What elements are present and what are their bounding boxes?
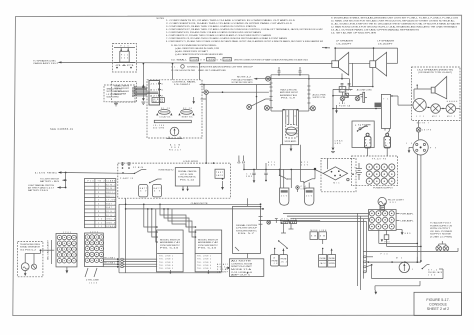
switch S4 lever down (278, 240, 288, 249)
svg-text:ASSEMBLY A10: ASSEMBLY A10 (280, 94, 297, 97)
annotation TO A11 with arrow (217, 263, 229, 274)
svg-text:9: 9 (98, 215, 99, 217)
svg-text:SUPPLY PS1: SUPPLY PS1 (313, 97, 326, 99)
svg-text:ALARM: ALARM (35, 171, 46, 174)
svg-text:TEL LINE 3: TEL LINE 3 (159, 262, 173, 264)
fuse F3 rounded (384, 133, 391, 148)
svg-text:PWR AMPL: PWR AMPL (401, 212, 414, 215)
svg-text:R20: R20 (282, 219, 288, 221)
svg-text:BAT +: BAT + (106, 202, 115, 205)
svg-text:AT THE P-AND 5 & 17: AT THE P-AND 5 & 17 (28, 186, 54, 189)
svg-text:FIG. 5-13: FIG. 5-13 (160, 248, 178, 250)
handset dashed box (104, 85, 135, 102)
svg-text:3: 3 (98, 192, 99, 194)
wires down from big connector (417, 154, 421, 261)
ground below handset box (114, 102, 118, 106)
svg-text:DENOTES CONNECTOR POINTS OF SA: DENOTES CONNECTOR POINTS OF SAME VOLTAGE… (234, 59, 308, 62)
remote connector MIC2 X circle (440, 104, 459, 118)
left edge terminal marks box A1 (155, 226, 158, 243)
svg-text:DS1: DS1 (390, 202, 396, 204)
switch S3 lever (149, 179, 162, 183)
small X connector above big connector (416, 121, 431, 140)
wires below amplifier (280, 145, 304, 188)
small connector box on AC feed (345, 93, 348, 97)
terminal bar in control panel (154, 120, 191, 122)
wire drop with junction near x204 (200, 84, 271, 90)
svg-text:8. COMPONENTS T1, R14 AND THRU: 8. COMPONENTS T1, R14 AND THRU C21 ARE L… (166, 40, 324, 43)
svg-text:LF SPEAKER: LF SPEAKER (114, 90, 130, 93)
svg-text:TERM: TERM (191, 59, 198, 61)
svg-text:NOTES: NOTES (157, 18, 165, 20)
svg-text:ASSEMBLY A1: ASSEMBLY A1 (160, 241, 180, 244)
connector J1/P1 terminals on control panel left (149, 81, 163, 106)
svg-text:MODEL SWITCH: MODEL SWITCH (160, 240, 181, 242)
svg-text:GND-B: GND-B (106, 222, 116, 224)
svg-text:HORN RELAY K2: HORN RELAY K2 (159, 169, 174, 172)
wire big box top to clang box (247, 198, 249, 206)
svg-text:TEL LINE 4: TEL LINE 4 (159, 265, 173, 267)
svg-text:AMPLIFIER GROUP: AMPLIFIER GROUP (280, 91, 299, 94)
resistor R20 hatched (281, 219, 288, 224)
svg-text:ALM-2: ALM-2 (106, 187, 115, 190)
svg-text:PHONE: PHONE (329, 258, 336, 260)
svg-text:LS-3 SPEAKER (REMOTE): LS-3 SPEAKER (REMOTE) (417, 69, 454, 72)
svg-text:GND-A: GND-A (106, 218, 116, 221)
telephone generator dashed box (18, 241, 43, 276)
bus extension to AC area (309, 78, 373, 87)
svg-text:600 OHM: 600 OHM (114, 93, 127, 95)
filter FL1 dashed box (113, 44, 137, 73)
loud spkr label with arrows (183, 156, 245, 164)
svg-text:1. COMPONENTS R1, R2 AND THRU: 1. COMPONENTS R1, R2 AND THRU C14 ARE LO… (166, 19, 296, 22)
svg-text:MIC CABLE ASSY: MIC CABLE ASSY (47, 239, 50, 260)
svg-text:TELEPHONE RING: TELEPHONE RING (20, 244, 41, 246)
wires grid B to model switch (103, 257, 120, 267)
microphone diamond (314, 159, 356, 192)
capacitor ticks on AC feed (341, 84, 351, 90)
ground right of amplifier box (335, 105, 338, 114)
amplifier tube sockets grid 4x3 (369, 211, 394, 229)
svg-text:S2 ALM: S2 ALM (133, 166, 144, 169)
svg-text:LOCAL VOL: LOCAL VOL (160, 116, 171, 119)
note text near bus (232, 77, 254, 84)
svg-text:SW: SW (311, 236, 316, 238)
capacitor tick C2 on bus (299, 67, 302, 76)
speaker amplifier inner box (283, 109, 299, 145)
svg-text:PHONE: PHONE (320, 258, 327, 260)
svg-text:9. BLOCK DIMENSION SPECIFIED:: 9. BLOCK DIMENSION SPECIFIED: (171, 45, 218, 47)
svg-text:FIG. 5-9: FIG. 5-9 (281, 97, 295, 99)
switch S1 lever (357, 125, 368, 132)
svg-text:3. COMPONENTS R5, R6 AND THRU: 3. COMPONENTS R5, R6 AND THRU C16 ARE LO… (166, 25, 256, 28)
cylinder tube V2 (305, 188, 314, 205)
svg-text:TEL LINE 5: TEL LINE 5 (197, 268, 211, 270)
wire FL1 to control panel (long horizontal) (113, 63, 333, 64)
amplifier AM grid box (369, 210, 397, 231)
mode switch small boxes (310, 230, 327, 240)
svg-text:BELL+: BELL+ (106, 192, 115, 194)
svg-text:LF SPEAKER: LF SPEAKER (377, 40, 395, 43)
svg-text:ASSEMBLY A2: ASSEMBLY A2 (198, 241, 218, 244)
svg-text:POWER SUPPLY ON: POWER SUPPLY ON (430, 225, 453, 227)
power supply tube sockets grid 4x3 (366, 164, 395, 184)
svg-text:LS-166/FT: LS-166/FT (337, 43, 354, 45)
svg-text:(OR REMOTE TYPE LS-460?): (OR REMOTE TYPE LS-460?) (418, 72, 453, 74)
switch lever S7 (303, 169, 315, 188)
svg-text:MIC: MIC (333, 182, 340, 184)
svg-text:13. ALL OUTSIDE PANEL LIST AND: 13. ALL OUTSIDE PANEL LIST AND UPPER MAN… (331, 29, 420, 32)
wires handset box to control panel (135, 85, 159, 96)
capacitor tick C1 on bus (278, 67, 281, 76)
tel line label below grid B (85, 268, 100, 284)
svg-text:CLANG NOTE: CLANG NOTE (191, 202, 209, 205)
LF speaker box inside control panel (152, 98, 164, 103)
fuse F1 dark strip (375, 103, 382, 108)
svg-text:G1 FIG 5-2: G1 FIG 5-2 (20, 249, 36, 251)
fuse F1 label (339, 103, 351, 108)
capacitor on bus (275, 218, 278, 223)
connector J1/P1 terminals on control panel left (149, 81, 163, 106)
svg-text:LF SPEAKER: LF SPEAKER (336, 40, 354, 43)
grounds below cancel box (182, 186, 189, 191)
svg-text:SW: SW (320, 236, 325, 238)
svg-text:600 OHM: 600 OHM (153, 128, 165, 130)
note text right column bottom (430, 222, 453, 239)
AC line cord label (345, 89, 373, 93)
svg-text:PP-327 PS: PP-327 PS (372, 158, 387, 160)
bus wires clang note (119, 198, 264, 273)
remote speaker horn (414, 77, 458, 102)
svg-text:7. COMPONENTS C3, R12 AND THRU: 7. COMPONENTS C3, R12 AND THRU C20 ARE L… (166, 37, 288, 40)
svg-text:R21: R21 (290, 219, 296, 221)
svg-text:SYNCHRONETIC: SYNCHRONETIC (236, 230, 258, 232)
svg-text:TRACK & RECORD: TRACK & RECORD (280, 89, 298, 92)
bus wire y78.7 with left arrowhead (254, 78, 309, 80)
wires handset box to control panel (136, 84, 158, 95)
svg-text:SYNCHRONETIC: SYNCHRONETIC (160, 245, 181, 247)
svg-text:(b) ALL RESISTORS 1/2 WATT: (b) ALL RESISTORS 1/2 WATT (175, 50, 209, 53)
svg-text:TEL LINE 2: TEL LINE 2 (159, 259, 173, 261)
vertical cable label left of grid A (47, 239, 52, 264)
svg-text:BATT: BATT (140, 187, 148, 190)
connector X circle J3 (340, 92, 345, 104)
svg-text:LISTEN: LISTEN (329, 263, 336, 265)
svg-text:SUPPLY NOISE: SUPPLY NOISE (430, 234, 452, 236)
svg-text:BATTERY P.S.E.S: BATTERY P.S.E.S (28, 189, 49, 192)
svg-text:FIG. 5-7: FIG. 5-7 (238, 233, 254, 235)
svg-text:(7.2MV 2.1 PWR): (7.2MV 2.1 PWR) (430, 237, 453, 239)
inline note text box (229, 259, 263, 277)
power unit box with switch and fuse (352, 121, 374, 148)
svg-text:FIG. 5-13: FIG. 5-13 (198, 248, 216, 250)
transformer T1 tall rect (381, 94, 394, 128)
phone jack box A (271, 248, 279, 266)
svg-text:5. COMPONENTS R9, R10 AND THRU: 5. COMPONENTS R9, R10 AND THRU C18 ARE L… (166, 31, 262, 34)
amplifier group label (280, 89, 299, 100)
svg-text:TERM: TERM (208, 59, 215, 61)
svg-text:10. PANEL LINE SECTION FOR TWO: 10. PANEL LINE SECTION FOR TWO-AND-OVER … (331, 20, 456, 23)
connector X circle right of control panel (204, 90, 208, 94)
svg-text:1: 1 (98, 184, 99, 186)
svg-text:2. COMPONENTS R3, R4 AND THRU: 2. COMPONENTS R3, R4 AND THRU C15 ARE LO… (166, 22, 293, 25)
svg-text:POWER SUPPLY: POWER SUPPLY (373, 188, 394, 190)
switch levers S5 S6 (279, 169, 292, 188)
svg-text:SIGNAL DISTRIB: SIGNAL DISTRIB (236, 224, 258, 227)
svg-text:5: 5 (98, 200, 99, 202)
svg-text:FIG 4 & 7: FIG 4 & 7 (169, 150, 181, 152)
switch lever and phone jack label bottom right (422, 265, 443, 277)
amplifier group large box (270, 75, 311, 111)
notes text block left column (157, 18, 324, 72)
notes text block right column (331, 17, 460, 35)
wire from connector to amplifier bus (202, 91, 269, 93)
svg-text:SYNCHRONETIC: SYNCHRONETIC (178, 177, 197, 179)
record play jacks pair (319, 239, 336, 267)
svg-text:NOT AT RECORD SETS: NOT AT RECORD SETS (232, 81, 254, 84)
svg-text:TEL LINE 1: TEL LINE 1 (197, 255, 211, 257)
svg-text:AC LINE CORD: AC LINE CORD (357, 89, 373, 92)
svg-text:TEL LINE 1: TEL LINE 1 (104, 257, 115, 259)
svg-text:FIG. 5-14: FIG. 5-14 (180, 179, 194, 181)
svg-text:SHEET 2 of 2: SHEET 2 of 2 (427, 307, 449, 311)
bracket label below control panel (169, 144, 181, 152)
nested loop wires to switch boxes (143, 204, 195, 243)
svg-text:7: 7 (98, 207, 99, 209)
pilot light DS1 (378, 197, 405, 210)
wire from annotation to filter FL1 (62, 61, 113, 63)
battery BT1 (139, 185, 148, 197)
bottom right long wire P10 (363, 248, 458, 256)
ground right in clang area (221, 178, 224, 190)
svg-text:SIG 1: SIG 1 (106, 211, 115, 213)
svg-text:FOR DIA & FIG MARK: FOR DIA & FIG MARK (232, 78, 254, 81)
svg-text:TO ADJUST VOLT: TO ADJUST VOLT (430, 222, 452, 225)
svg-text:SPARE: SPARE (106, 225, 116, 228)
svg-text:TEL LINE 2: TEL LINE 2 (197, 259, 211, 261)
label LS-166 600 ohm (153, 125, 165, 130)
wires inside generator box (25, 249, 54, 264)
svg-text:10. SMALL: 10. SMALL (171, 59, 188, 62)
svg-text:P10: P10 (88, 181, 94, 183)
svg-text:CONSOLE: CONSOLE (429, 303, 448, 307)
switch lever on AC feed (358, 94, 361, 96)
svg-text:S CO-AX: S CO-AX (217, 268, 229, 271)
svg-text:14. SET A LINE OF MULTIPLIER: 14. SET A LINE OF MULTIPLIER (331, 31, 377, 34)
control panel dashed box (147, 80, 202, 138)
svg-text:LIGHT MANUAL SWITCH: LIGHT MANUAL SWITCH (28, 184, 55, 187)
svg-text:WITH OUTPUT: WITH OUTPUT (430, 228, 451, 230)
svg-text:LS-204/FT: LS-204/FT (378, 43, 395, 45)
chassis ground bottom left (331, 140, 343, 153)
jack field grid B (85, 231, 104, 266)
switch S2 in clang box (133, 166, 146, 174)
junction dot on top edge (213, 162, 215, 164)
wire vertical into control panel top x199.6 (199, 63, 201, 80)
capacitor C1 below bus (246, 169, 256, 183)
battery BT2 (152, 185, 161, 197)
capacitor C2 below bus (264, 169, 267, 182)
svg-text:SIGNAL CANCEL: SIGNAL CANCEL (178, 170, 197, 173)
svg-text:SEE 048855-01: SEE 048855-01 (50, 127, 74, 131)
svg-text:CONTROL PANEL: CONTROL PANEL (172, 81, 196, 84)
speaker LS1 (power speaker) (332, 40, 354, 79)
signal cancel switch box (175, 168, 200, 186)
svg-text:BAT -: BAT - (106, 206, 115, 209)
bus above cylinders (243, 162, 316, 170)
svg-text:PHONE: PHONE (272, 260, 279, 262)
wire bundle into amp grid from left (283, 213, 369, 266)
svg-text:JACK: JACK (320, 262, 327, 265)
svg-text:TEST: TEST (216, 172, 224, 174)
svg-text:SMALL SETS: SMALL SETS (114, 85, 130, 88)
svg-text:BATTERY + BUS: BATTERY + BUS (40, 180, 60, 183)
annotation TO LIGHT SWITCH (40, 173, 67, 188)
wire from LS2 down (372, 68, 374, 88)
fuse F2 rounded (364, 133, 371, 148)
svg-text:MIC 1: MIC 1 (432, 116, 440, 118)
svg-text:PHONE JACK: PHONE JACK (428, 271, 443, 274)
svg-text:2 TEL LINE: 2 TEL LINE (86, 280, 100, 282)
meter M1 circle with arrow (167, 127, 183, 138)
svg-text:OF SIG. POWER: OF SIG. POWER (430, 231, 453, 233)
speaker top wire (322, 47, 398, 63)
junction dots on bus (308, 78, 310, 80)
drop wires from bus (281, 224, 294, 233)
ground below amplifier grid (396, 230, 411, 236)
amplifier labels right (396, 212, 413, 222)
annotation LIGHT MANUAL SWITCH (28, 184, 67, 192)
svg-text:FL1: FL1 (121, 54, 128, 56)
svg-text:8: 8 (98, 211, 99, 213)
svg-text:SWITCH UNIT: SWITCH UNIT (231, 266, 254, 268)
model switch box A2 (195, 230, 222, 272)
svg-text:12. MAIN ROUND LEVELS FOR GROU: 12. MAIN ROUND LEVELS FOR GROUND IN (FS-… (331, 26, 458, 29)
capacitor ticks on clang box top edge (120, 162, 134, 180)
wire vertical drop to ground at x143 (141, 63, 145, 105)
ground below grid A (66, 267, 69, 274)
battery polarity symbols (354, 163, 362, 181)
svg-text:PHONE: PHONE (281, 259, 288, 261)
svg-text:CONTROL ROOM: CONTROL ROOM (231, 263, 253, 265)
svg-text:2: 2 (98, 188, 99, 190)
svg-text:BATT: BATT (154, 187, 162, 190)
connector X circle J4 (355, 96, 360, 101)
svg-text:ALM-1: ALM-1 (106, 183, 115, 186)
svg-text:JACK: JACK (216, 174, 224, 177)
wire T1 to F3 (385, 128, 389, 133)
svg-text:12. ONLY A S-NOTE PER: 12. ONLY A S-NOTE PER (171, 69, 195, 72)
svg-text:FUSE 3A: FUSE 3A (339, 104, 351, 107)
svg-text:4. COMPONENTS R7, R8 AND THRU: 4. COMPONENTS R7, R8 AND THRU C17 ARE LO… (166, 28, 324, 31)
svg-text:LS-166/U: LS-166/U (174, 84, 191, 86)
fuse F3 rounded (384, 133, 391, 147)
svg-text:FIRE BELL: FIRE BELL (47, 172, 57, 174)
svg-text:6. COMPONENTS C2, R11 AND THRU: 6. COMPONENTS C2, R11 AND THRU C19 ARE L… (166, 34, 272, 37)
svg-text:MONIT VOL: MONIT VOL (182, 117, 193, 119)
svg-text:SIG 2: SIG 2 (106, 215, 115, 217)
svg-text:600 OHM: 600 OHM (153, 101, 164, 103)
svg-text:J1 A P1: J1 A P1 (115, 64, 134, 67)
left edge terminal marks box A2 (195, 226, 197, 238)
svg-text:TEL LINE 3: TEL LINE 3 (197, 262, 211, 264)
svg-text:GND: GND (405, 233, 412, 235)
wire between speakers (349, 63, 370, 86)
svg-text:OR: OR (200, 60, 205, 62)
bottom right loop wires (372, 257, 443, 295)
model switch box A1 (157, 230, 184, 272)
svg-text:4: 4 (98, 196, 99, 198)
X connector on bus (267, 220, 271, 224)
svg-text:GND: GND (335, 143, 342, 145)
svg-text:TEL LINE 4: TEL LINE 4 (197, 265, 211, 267)
connector X circle J10 left (264, 105, 273, 110)
wire from J11 down left vertical (256, 85, 258, 170)
svg-text:S1 PWR: S1 PWR (358, 125, 368, 127)
potentiometer R1 LOCAL VOL (156, 108, 172, 119)
svg-text:MODEL SWITCH: MODEL SWITCH (198, 240, 219, 242)
annotation ALARM BELL (35, 171, 135, 174)
svg-text:AC/DC PWR: AC/DC PWR (313, 93, 327, 96)
fuse F2 rounded (364, 133, 371, 147)
connector X circle J11 left lower (247, 99, 271, 110)
svg-text:SYMBOL DENOTES AN MODIFIED LET: SYMBOL DENOTES AN MODIFIED LETTER GROUP (187, 65, 254, 68)
svg-text:J8/P8: J8/P8 (422, 130, 431, 132)
cylinder tube V1 (280, 188, 289, 205)
svg-text:& FILTER GROUP: & FILTER GROUP (236, 228, 258, 230)
connector P10 below amp grid (384, 230, 389, 243)
svg-text:JK 2: JK 2 (281, 262, 287, 264)
svg-text:AU NOTE: AU NOTE (231, 260, 253, 263)
bottom right terminals column (357, 251, 373, 290)
svg-text:TEL LINE 2: TEL LINE 2 (104, 263, 115, 265)
svg-text:TERM: TERM (224, 59, 231, 61)
test jack box in clang area (215, 169, 224, 178)
remote connector J21 big X circle (413, 99, 426, 118)
AC power supply text (313, 93, 327, 99)
big connector P9 circle (406, 140, 436, 155)
svg-text:6: 6 (98, 203, 99, 205)
meter M2 bottom right (369, 258, 421, 273)
svg-text:CHAS: CHAS (335, 140, 344, 143)
bell B1 circle (21, 263, 29, 276)
svg-text:BELL-: BELL- (106, 196, 115, 198)
svg-text:CLANG: CLANG (106, 180, 116, 183)
svg-text:115V: 115V (345, 90, 352, 92)
svg-text:TEL LINE 5: TEL LINE 5 (159, 268, 173, 270)
clang signal dashed box (118, 163, 231, 198)
svg-text:AU A11: AU A11 (217, 263, 228, 266)
terminal board table TB2 (84, 179, 116, 229)
bottom long bus wire (119, 253, 248, 273)
resistor R21 hatched (290, 219, 297, 224)
svg-text:600 OHM: 600 OHM (107, 96, 120, 98)
AC feed wires left (332, 89, 381, 147)
svg-text:SPKR AMPL: SPKR AMPL (285, 140, 297, 143)
wire vertical into control panel top x172.5 (172, 63, 174, 80)
svg-text:LINE AMPL: LINE AMPL (401, 219, 414, 222)
terminals on model switch left edge (121, 258, 158, 267)
phone jack box B (279, 249, 287, 267)
twin X connectors bottom right (436, 241, 449, 251)
svg-text:1.5: 1.5 (385, 142, 390, 144)
svg-text:P10: P10 (381, 254, 388, 256)
svg-text:MIC 2: MIC 2 (447, 116, 455, 118)
svg-text:CABLE ASSY FIG 2: CABLE ASSY FIG 2 (33, 62, 58, 65)
bus from signal box to components right (261, 220, 321, 222)
svg-text:1.5: 1.5 (365, 142, 370, 144)
handset dashed box (112, 82, 137, 103)
annotation TO SPEAKER arrow (top left) (33, 59, 62, 65)
